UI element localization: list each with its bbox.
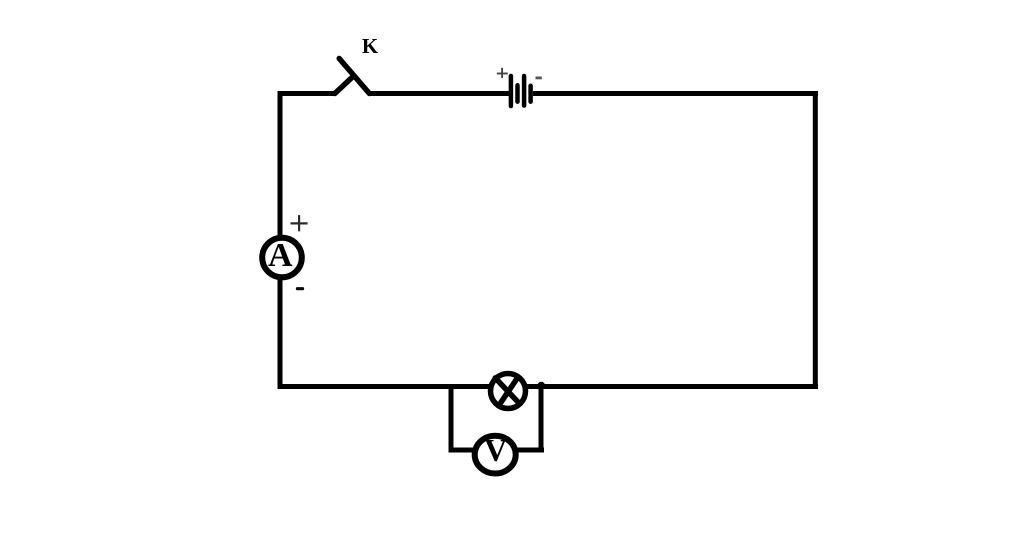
battery B1: plate 4 (short, -): [528, 86, 533, 102]
wire: parallel branch bottom horizontal (right of voltmeter): [515, 448, 544, 453]
wire: bottom horizontal left segment (corner to lamp): [278, 384, 490, 389]
label battery +: [497, 68, 508, 78]
switch K: fixed contact stroke: [335, 77, 353, 94]
svg-text:A: A: [268, 237, 293, 274]
wire: bottom horizontal right segment (corner to lamp): [527, 384, 818, 389]
battery B1: plate 2 (short, -): [515, 85, 520, 101]
wire: top horizontal segment from switch to battery: [368, 91, 509, 96]
label ammeter -: [296, 287, 304, 290]
switch K: open blade stroke: [339, 59, 369, 94]
svg-text:V: V: [484, 432, 507, 468]
lamp: cross stroke 1: [495, 378, 519, 404]
wire: right vertical: [813, 91, 818, 389]
battery B1: plate 1 (long, +): [509, 76, 514, 106]
wire: top-left horizontal segment to switch: [278, 91, 336, 96]
wire: parallel branch bottom horizontal (left of voltmeter): [449, 448, 477, 453]
wire: parallel branch left vertical: [449, 384, 454, 450]
label ammeter +: [291, 215, 308, 231]
wire: parallel branch right vertical: [539, 384, 544, 453]
wire: top horizontal segment from battery to top-right corner: [533, 91, 818, 96]
junction dot at lamp-right / branch node: [537, 382, 545, 390]
voltmeter V: ellipse body: [475, 436, 516, 474]
ammeter A: circle body: [262, 238, 302, 278]
battery B1: plate 3 (long, +): [522, 76, 527, 106]
lamp: circle body: [491, 374, 526, 409]
lamp: cross stroke 2: [501, 378, 517, 402]
wire: left vertical (top corner to ammeter to bottom corner): [278, 91, 283, 389]
label battery -: [536, 77, 542, 80]
svg-text:K: K: [362, 34, 379, 58]
